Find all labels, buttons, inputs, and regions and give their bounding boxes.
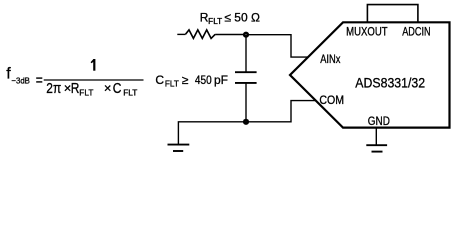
junction node A (dot) — [243, 32, 249, 38]
svg-text:FLT: FLT — [79, 88, 93, 98]
ground symbol (left) — [168, 145, 190, 151]
svg-text:2π: 2π — [46, 80, 61, 97]
capacitor CFLT plates — [235, 72, 257, 83]
svg-text:≤ 50 Ω: ≤ 50 Ω — [224, 11, 260, 25]
denominator 2 pi x RFLT x CFLT — [46, 80, 137, 98]
svg-text:ADCIN: ADCIN — [402, 27, 430, 39]
numerator 1 (hand glyph) — [91, 59, 96, 71]
svg-text:≥: ≥ — [182, 73, 189, 87]
wire: junction B to COM entry — [246, 101, 315, 122]
resistor RFLT zigzag — [186, 30, 216, 39]
svg-text:×: × — [104, 80, 112, 95]
wire: MUXOUT to ADCIN external loop — [367, 5, 418, 22]
svg-text:ADS8331/32: ADS8331/32 — [355, 75, 425, 90]
wire: resistor to junction A — [215, 34, 246, 36]
svg-text:MUXOUT: MUXOUT — [346, 27, 388, 39]
svg-text:FLT: FLT — [165, 80, 179, 89]
svg-text:=: = — [36, 72, 43, 89]
svg-text:FLT: FLT — [123, 88, 137, 98]
label CFLT >= 450 pF — [155, 73, 228, 89]
wire: capacitor to junction B — [245, 83, 247, 122]
label RFLT <= 50 ohm — [200, 11, 260, 26]
wire: junction B to left ground — [178, 122, 246, 145]
op-amp / mux chip ADS8331/32 outline — [290, 22, 450, 127]
svg-text:R: R — [71, 80, 80, 97]
ground symbol (right, chip GND) — [366, 145, 387, 151]
svg-text:450: 450 — [195, 73, 212, 87]
svg-text:AINx: AINx — [320, 54, 340, 66]
svg-text:C: C — [113, 80, 122, 97]
wire: junction A down to capacitor — [245, 35, 247, 72]
wire: GND pin — [375, 128, 377, 145]
wire: junction A to AINx entry — [246, 35, 308, 57]
svg-text:GND: GND — [368, 116, 390, 128]
svg-text:C: C — [155, 73, 164, 87]
svg-text:pF: pF — [214, 73, 228, 87]
svg-text:−3dB: −3dB — [11, 75, 30, 85]
wire: input stub to resistor — [177, 33, 185, 35]
svg-text:COM: COM — [319, 95, 344, 107]
svg-text:FLT: FLT — [208, 17, 222, 26]
junction node B (dot) — [243, 119, 249, 125]
equation f-3dB formula — [6, 66, 143, 89]
